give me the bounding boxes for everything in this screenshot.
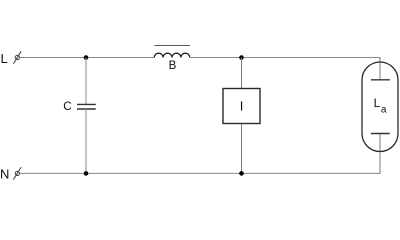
wire inductor to junction I bbox=[190, 57, 242, 59]
lamp La envelope bbox=[362, 62, 398, 151]
junction bottom-I bbox=[239, 171, 244, 176]
node L bbox=[1, 51, 8, 66]
capacitor C bbox=[77, 58, 96, 174]
terminal L bbox=[13, 51, 21, 64]
junction top-I bbox=[239, 55, 244, 60]
igniter I lead top bbox=[241, 58, 243, 89]
junction top-C bbox=[84, 55, 89, 60]
svg-text:a: a bbox=[381, 104, 387, 115]
node N bbox=[0, 167, 9, 182]
terminal N bbox=[13, 167, 21, 180]
svg-text:N: N bbox=[0, 167, 9, 182]
lamp electrode bottom bbox=[371, 133, 390, 135]
label La bbox=[374, 96, 387, 115]
lamp electrode top bbox=[371, 79, 390, 81]
wire junction I to lamp top corner bbox=[242, 57, 381, 80]
wire N terminal to junction C bottom bbox=[19, 172, 86, 174]
label C bbox=[63, 101, 71, 113]
svg-text:B: B bbox=[169, 60, 177, 72]
inductor B core line bbox=[155, 45, 191, 47]
label I bbox=[240, 99, 244, 114]
label B bbox=[169, 60, 177, 72]
wire junction I bottom to lamp bottom corner bbox=[242, 134, 381, 174]
wire junction C bottom to junction I bottom bbox=[86, 172, 242, 174]
igniter I lead bottom bbox=[241, 124, 243, 174]
svg-text:L: L bbox=[1, 51, 8, 66]
wire junction C to inductor bbox=[86, 57, 154, 59]
svg-text:C: C bbox=[63, 101, 71, 113]
wire L terminal to junction C bbox=[19, 57, 86, 59]
junction bottom-C bbox=[84, 171, 89, 176]
inductor B bbox=[154, 53, 190, 57]
igniter I box bbox=[223, 89, 260, 124]
svg-text:L: L bbox=[374, 96, 381, 110]
svg-text:I: I bbox=[240, 99, 244, 114]
